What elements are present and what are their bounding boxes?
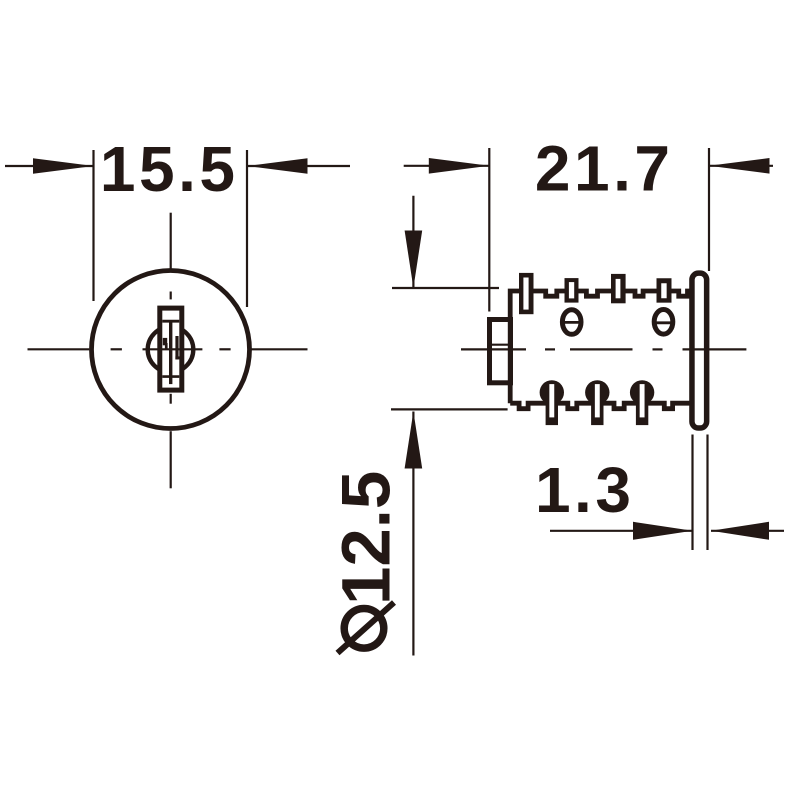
- top pin 2: [565, 278, 579, 303]
- dimension diameter 12.5 top arrowhead: [405, 231, 423, 289]
- keyhole right ward: [175, 336, 181, 359]
- dimension 15.5 extension lines: [94, 150, 248, 307]
- dimension 1.3 right arrowhead: [711, 522, 769, 540]
- svg-text:1.3: 1.3: [535, 454, 634, 526]
- dimension 21.7 extension lines: [489, 148, 709, 312]
- bottom spring pin 3: [630, 380, 654, 425]
- dimension 15.5 dimension lines: [5, 165, 350, 167]
- front view: plug inner circle: [148, 327, 194, 373]
- screw head 1: [562, 310, 581, 335]
- keyhole top bar: [162, 320, 179, 323]
- dimension 15.5 right arrowhead: [247, 158, 308, 174]
- keyhole center slot line: [169, 322, 172, 384]
- front flange rounded rectangle: [692, 273, 707, 428]
- diameter symbol of label 12.5: [338, 603, 395, 654]
- svg-text:21.7: 21.7: [535, 133, 674, 205]
- keyhole slot bottom bar: [162, 375, 179, 378]
- screw head 2: [654, 310, 673, 335]
- dimension 1.3 dimension lines: [550, 530, 784, 532]
- keyhole left ward: [163, 338, 168, 350]
- dimension 1.3 left arrowhead: [633, 522, 693, 540]
- side view body top castellated outline: [510, 291, 692, 403]
- dimension 1.3 extension lines: [693, 435, 708, 551]
- side view horizontal centerline (dash-dot): [461, 348, 746, 350]
- keyhole outer rectangle: [160, 308, 182, 390]
- top pin 3: [611, 274, 626, 303]
- dimension 15.5 left arrowhead: [33, 158, 94, 174]
- bottom spring pin 2: [585, 380, 609, 425]
- svg-text:15.5: 15.5: [100, 133, 239, 205]
- dimension diameter 12.5 arrow lines: [412, 196, 414, 656]
- svg-text:12.5: 12.5: [328, 471, 405, 605]
- cam inner line: [488, 344, 512, 346]
- dimension diameter 12.5 bottom arrowhead: [405, 412, 423, 469]
- front view horizontal centerline (dash-dot): [28, 348, 308, 350]
- front view vertical centerline (dash-dot): [170, 213, 172, 489]
- front view: cylinder face outer circle: [92, 271, 250, 429]
- dimension 21.7 dimension lines: [404, 165, 773, 167]
- bottom spring pin 1: [540, 380, 564, 425]
- side view body bottom castellated outline: [510, 403, 692, 409]
- dimension 21.7 left arrowhead: [429, 158, 490, 174]
- dimension diameter 12.5 extension lines: [391, 288, 508, 409]
- top pin 1: [519, 273, 534, 314]
- top pin 4: [657, 278, 672, 302]
- side view: rear cam box: [490, 320, 511, 383]
- dimension 21.7 right arrowhead: [709, 158, 770, 174]
